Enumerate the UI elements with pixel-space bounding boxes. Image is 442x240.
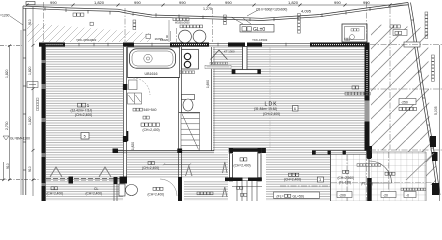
bicycle elevation box (399, 99, 416, 105)
wall post a (123, 84, 127, 90)
LDK south wall window frames (316, 151, 367, 155)
LDK south wall post c (343, 150, 346, 154)
svg-text:1,690: 1,690 (206, 80, 210, 88)
closet right post (120, 177, 128, 184)
LDK west wall (211, 47, 213, 151)
west boundary fence (21, 6, 26, 195)
hosu clean tiny text (210, 62, 212, 64)
svg-text:(CH=2,400): (CH=2,400) (148, 192, 165, 196)
slop sink tiny text (351, 29, 353, 31)
gate post blob b (432, 152, 438, 161)
closet sliding door dash line (46, 177, 123, 179)
closet shelf note (133, 108, 136, 111)
washbasin tiny note (180, 71, 183, 74)
porch tiled floor (371, 152, 426, 201)
bathtub (130, 49, 176, 68)
svg-text:910: 910 (6, 163, 10, 169)
leader 1200 note (10, 16, 23, 25)
svg-text:GL=BM+1300: GL=BM+1300 (10, 137, 30, 141)
north fence stepped double line (23, 3, 408, 21)
hanger symbol right (99, 167, 111, 177)
WC label (153, 187, 156, 190)
svg-text:1,820: 1,820 (28, 66, 32, 75)
svg-text:(CH=2,400): (CH=2,400) (142, 166, 159, 170)
understairs hatched floor (184, 180, 228, 201)
top wall window 5 (262, 43, 310, 47)
kitchen door note vert (133, 20, 136, 23)
left exterior wall (42, 43, 46, 202)
svg-text:990: 990 (134, 0, 141, 5)
svg-text:=1200: =1200 (0, 14, 10, 18)
LDK south wall post b (328, 150, 331, 154)
svg-text:(CH=2,400): (CH=2,400) (284, 178, 301, 182)
porch label (385, 172, 388, 175)
room1 label (78, 103, 82, 107)
svg-text:4,095: 4,095 (301, 9, 312, 14)
elevation box a (337, 192, 352, 198)
gate note (401, 188, 403, 190)
north apron diagonal hatch (27, 23, 150, 42)
stairs steps (232, 181, 262, 201)
LDK south corner post (367, 146, 373, 158)
corridor hatched floor (127, 153, 229, 178)
FL note boxed (274, 192, 320, 198)
svg-text:990: 990 (179, 0, 186, 5)
svg-text:990: 990 (225, 0, 232, 5)
white spec text in bars (42, 45, 368, 195)
right wall text specks (366, 50, 368, 96)
genkan label (343, 170, 346, 173)
svg-text:1,820: 1,820 (5, 69, 9, 78)
svg-text:YKK-16503: YKK-16503 (252, 38, 268, 42)
gas meter box (146, 34, 151, 38)
washbasin unit (182, 50, 199, 70)
washroom south wall line (179, 112, 201, 114)
svg-text:-250: -250 (401, 101, 408, 105)
svg-text:GL+50): GL+50) (293, 194, 304, 198)
corridor top wall post b (177, 149, 182, 154)
slop sink box (342, 24, 367, 42)
svg-text:UB1616: UB1616 (145, 72, 158, 76)
WC right wall (178, 177, 182, 201)
genkan tiled floor (331, 152, 369, 201)
butsuma label (240, 158, 243, 161)
genkan door jamb upper (367, 146, 371, 159)
right wall window segment (365, 101, 370, 122)
understairs label (197, 192, 200, 195)
top wall black bar 3 (170, 43, 209, 47)
hanger symbol corridor (186, 166, 193, 176)
entry door arc (370, 161, 392, 183)
closet shuno label (51, 187, 54, 190)
svg-text:-0: -0 (406, 194, 409, 198)
hosu clean hanger symbol (211, 50, 228, 60)
hosu clean note box (205, 65, 231, 68)
svg-text:1,820: 1,820 (94, 0, 105, 5)
svg-text:990: 990 (334, 0, 341, 5)
svg-text:5: 5 (84, 135, 86, 139)
top wall black bar 6 (310, 43, 369, 47)
genkan door line (368, 159, 370, 178)
bath/washroom divider (128, 77, 180, 79)
note umekomi east (390, 25, 393, 28)
svg-text:(CH=2,560): (CH=2,560) (338, 176, 355, 180)
corridor label (148, 162, 151, 165)
svg-text:(CH=2,400): (CH=2,400) (47, 192, 64, 196)
WC toilet (119, 184, 138, 196)
stair flight upper (181, 113, 200, 151)
svg-text:990: 990 (363, 0, 370, 5)
svg-text:CL: CL (94, 187, 99, 191)
room1 hatched floor (46, 47, 123, 201)
svg-text:2,730: 2,730 (5, 121, 9, 130)
hall label (289, 173, 292, 176)
genkan left wall (330, 154, 332, 201)
svg-text:(CH=2,400): (CH=2,400) (86, 192, 103, 196)
left wall vertical spec (37, 98, 39, 100)
bath faucet circles (144, 54, 152, 62)
east fence jogs (411, 20, 434, 148)
svg-text:(12.42m² 7.5J): (12.42m² 7.5J) (71, 109, 92, 113)
washroom toilet (182, 95, 195, 112)
svg-text:W1800xD900: W1800xD900 (175, 22, 190, 25)
butsuma bottom wall (225, 178, 262, 182)
east apron diagonal hatch (371, 24, 430, 150)
svg-text:3: 3 (319, 178, 321, 182)
LDK south wall post a (312, 150, 316, 154)
ecocute note vert (298, 14, 301, 17)
tesuri label (237, 186, 240, 189)
washroom left wall mark (126, 131, 128, 141)
svg-text:16020: 16020 (160, 38, 169, 42)
left margin dim lines (0, 7, 40, 196)
west GL marker (3, 136, 9, 140)
washing machine (129, 80, 138, 90)
inuashiri note (345, 92, 348, 95)
west fence jogs (23, 30, 26, 170)
leader lines GL note (231, 17, 251, 24)
grid verticals (44, 2, 391, 201)
left wall boxed label (27, 82, 38, 88)
svg-text:910: 910 (28, 166, 32, 172)
top wall black bar 5 (247, 43, 262, 47)
svg-text:(CH=2,400): (CH=2,400) (143, 128, 160, 132)
note propane bombe (180, 25, 183, 28)
svg-text:(31.84m² 15.8J): (31.84m² 15.8J) (254, 107, 277, 111)
svg-text:YKK-47610822: YKK-47610822 (76, 38, 97, 42)
fence note east rot1 (425, 12, 428, 15)
gate diagonal (406, 153, 434, 180)
WC left wall lines (114, 184, 117, 201)
east boundary stepped fence (408, 3, 440, 196)
propane tank 2 (193, 30, 206, 43)
right margin dim line (439, 45, 441, 201)
grid horizontals (280, 45, 442, 187)
propane tank 1 (179, 30, 192, 43)
bath room outline (128, 47, 180, 78)
top wall window 3 (209, 43, 228, 47)
elevation box b (381, 192, 396, 198)
note alumi monooki (173, 18, 176, 21)
hanger symbol oshiire lower (223, 187, 228, 197)
svg-text:1,275: 1,275 (203, 7, 212, 11)
elevation box c (404, 192, 416, 198)
svg-text:910: 910 (28, 19, 32, 25)
porch step edge (371, 151, 426, 153)
svg-text:6: 6 (294, 107, 296, 111)
makura-dana note (143, 116, 146, 119)
kaidan label (241, 193, 244, 196)
tap note vert (224, 15, 227, 18)
svg-text:1,820: 1,820 (288, 0, 299, 5)
hanger symbol left (50, 167, 62, 177)
right exterior wall upper (365, 43, 370, 101)
svg-text:KT 1300: KT 1300 (224, 49, 235, 53)
wall post b (123, 136, 127, 142)
top wall window 2 (134, 43, 170, 47)
boxed note sekkei GL (240, 25, 274, 33)
svg-text:(CH=2,400): (CH=2,400) (263, 112, 280, 116)
wall right of bath column (179, 47, 182, 178)
north fence corner box (26, 2, 35, 5)
top wall black bar 4 (228, 43, 245, 47)
svg-text:5,005: 5,005 (434, 106, 438, 115)
kitchen counter cap b (257, 70, 260, 74)
WC left wall post (114, 177, 118, 184)
stairs white area (229, 181, 266, 201)
kitchen counter (232, 47, 261, 74)
north fence step jogs (45, 5, 390, 22)
butsuma white room (228, 148, 266, 182)
corridor top wall post a (113, 149, 119, 154)
WC door arc (160, 179, 177, 196)
north dim stub line (168, 20, 170, 42)
top dim ticks (26, 4, 392, 7)
porch-side diagonal hatch (400, 150, 436, 185)
inuashiri label (352, 86, 355, 89)
note umekomi north (73, 13, 76, 16)
butsuma wall lines (229, 151, 261, 181)
monoire closet (128, 93, 142, 104)
entry door note (357, 164, 360, 167)
svg-text:540+540: 540+540 (144, 108, 157, 112)
genkan door jamb lower (367, 178, 372, 201)
svg-text:1,820: 1,820 (131, 142, 135, 150)
svg-text:(FL-380): (FL-380) (361, 181, 373, 185)
LDK hatched floor (213, 47, 365, 151)
wall room1/bath double line (124, 47, 127, 178)
right wall lower black (365, 122, 370, 155)
svg-text:-200: -200 (339, 194, 346, 198)
svg-text:(FL-180): (FL-180) (339, 181, 351, 185)
kitchen counter cap a (232, 70, 235, 74)
svg-text:CB h=600(t=120x600): CB h=600(t=120x600) (256, 8, 287, 12)
top wall black bar 1 (39, 43, 65, 47)
corridor top wall (113, 150, 214, 152)
svg-text:GL±0: GL±0 (253, 27, 265, 33)
hanger symbol oshiire upper (223, 162, 228, 173)
corridor dim line (164, 163, 190, 165)
closet mid post (69, 177, 74, 184)
bicycle label (399, 107, 402, 110)
left dim ticks (2, 44, 34, 181)
LDK number box (293, 106, 299, 112)
top wall black bar 2 (123, 43, 134, 47)
svg-text:1,820: 1,820 (28, 116, 32, 125)
embedded post (404, 42, 420, 47)
svg-text:(FL=: (FL= (277, 194, 284, 198)
svg-text:(CH=2,400): (CH=2,400) (234, 164, 251, 168)
gate post blob (430, 136, 436, 147)
leader CB fence note (247, 10, 258, 16)
top wall window 1 (65, 43, 123, 47)
left wall window gaps (42, 60, 46, 186)
washroom door arc (133, 78, 150, 95)
fence note east rot2 (432, 55, 435, 58)
hall hatched floor (266, 151, 330, 201)
washroom label (141, 123, 144, 126)
hall number box (317, 177, 323, 182)
svg-text:990: 990 (50, 0, 57, 5)
butsuma corner posts (229, 148, 266, 181)
boxed note dodome (393, 30, 407, 36)
svg-text:-20: -20 (383, 194, 388, 198)
svg-text:(CH=2,400): (CH=2,400) (75, 113, 92, 117)
top dim line (27, 4, 408, 6)
butsuma top wall bar (229, 148, 262, 152)
room1 number box (81, 133, 89, 140)
note hei (90, 22, 93, 25)
corridor-south closet strip (214, 153, 229, 178)
gate bottom hardware (432, 183, 439, 195)
